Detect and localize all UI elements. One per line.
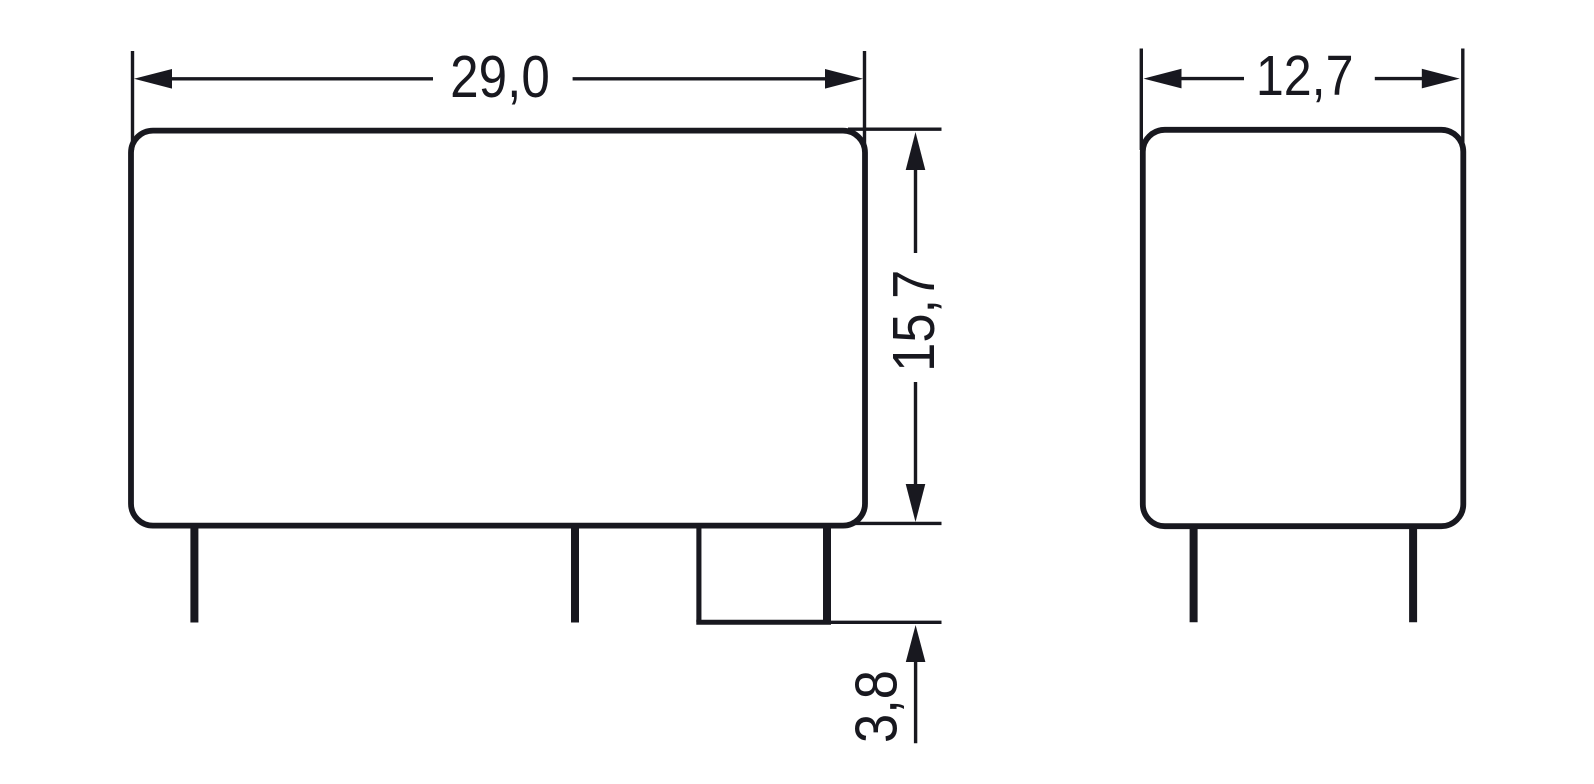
svg-text:15,7: 15,7 xyxy=(880,270,947,372)
svg-text:3,8: 3,8 xyxy=(843,670,910,743)
svg-text:12,7: 12,7 xyxy=(1256,44,1354,108)
svg-text:29,0: 29,0 xyxy=(450,44,550,110)
